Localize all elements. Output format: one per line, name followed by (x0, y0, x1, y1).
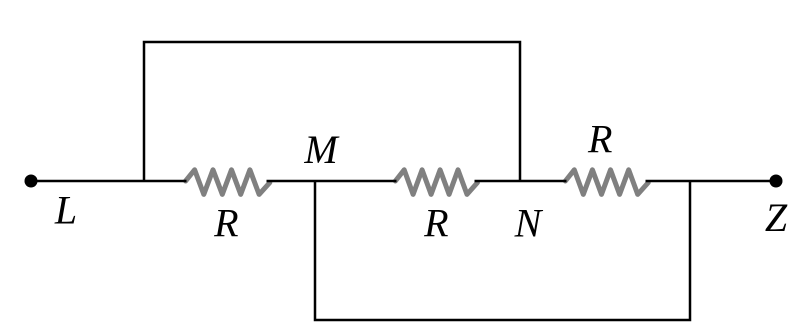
wire: node M segment (R1 to R2) (267, 180, 397, 183)
wire: top loop branch (144, 42, 520, 181)
resistor R1 (186, 170, 270, 195)
wire: node N segment (R2 to R3) (475, 180, 567, 183)
wire: L terminal to resistor R1 (31, 180, 187, 183)
svg-text:R: R (213, 201, 238, 246)
terminal L (dot) (25, 175, 38, 188)
wire: bottom loop branch (315, 181, 690, 320)
svg-text:Z: Z (765, 195, 788, 240)
svg-text:M: M (303, 127, 340, 172)
svg-text:L: L (54, 188, 77, 233)
terminal Z (dot) (770, 175, 783, 188)
wire: R3 to Z terminal (646, 180, 777, 183)
svg-text:R: R (587, 117, 612, 162)
svg-text:N: N (514, 200, 544, 245)
svg-text:R: R (423, 201, 448, 246)
resistor R2 (395, 170, 477, 195)
resistor R3 (565, 170, 648, 195)
